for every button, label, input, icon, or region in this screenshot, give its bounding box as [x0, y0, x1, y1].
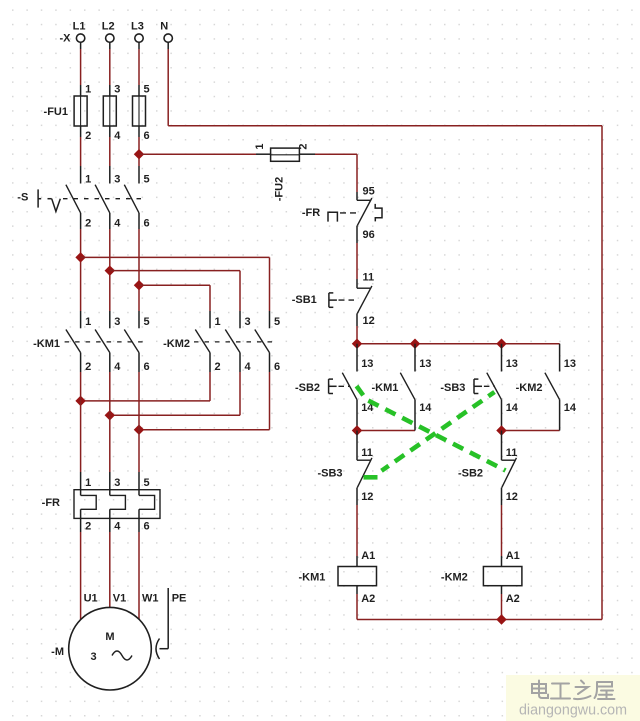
svg-text:1: 1 — [85, 84, 91, 96]
svg-text:A1: A1 — [506, 550, 520, 562]
svg-text:95: 95 — [363, 185, 375, 197]
svg-text:1: 1 — [85, 316, 91, 328]
svg-text:-SB1: -SB1 — [292, 294, 317, 306]
svg-text:11: 11 — [506, 447, 518, 459]
svg-text:V1: V1 — [113, 593, 126, 605]
svg-text:-X: -X — [60, 33, 72, 45]
svg-text:-SB3: -SB3 — [440, 382, 465, 394]
svg-text:-FU1: -FU1 — [44, 106, 68, 118]
svg-text:5: 5 — [144, 477, 150, 489]
svg-text:11: 11 — [363, 272, 375, 284]
svg-text:14: 14 — [506, 402, 519, 414]
svg-text:2: 2 — [85, 217, 91, 229]
svg-text:4: 4 — [114, 361, 121, 373]
svg-text:5: 5 — [144, 174, 150, 186]
svg-text:3: 3 — [114, 316, 120, 328]
svg-text:-KM2: -KM2 — [163, 338, 190, 350]
svg-text:14: 14 — [419, 402, 432, 414]
svg-text:W1: W1 — [142, 593, 159, 605]
svg-text:6: 6 — [274, 361, 280, 373]
svg-text:-KM2: -KM2 — [441, 571, 468, 583]
svg-text:12: 12 — [363, 315, 375, 327]
svg-text:2: 2 — [298, 143, 310, 149]
svg-text:A2: A2 — [361, 593, 375, 605]
svg-text:-KM1: -KM1 — [372, 382, 399, 394]
svg-text:1: 1 — [215, 316, 221, 328]
svg-text:1: 1 — [85, 174, 91, 186]
svg-text:-SB3: -SB3 — [317, 468, 342, 480]
svg-text:1: 1 — [85, 477, 91, 489]
svg-text:96: 96 — [363, 229, 375, 241]
svg-text:-KM1: -KM1 — [33, 338, 60, 350]
svg-text:-FR: -FR — [302, 207, 320, 219]
svg-text:2: 2 — [85, 361, 91, 373]
svg-text:5: 5 — [274, 316, 280, 328]
svg-text:6: 6 — [144, 217, 150, 229]
svg-text:5: 5 — [144, 316, 150, 328]
svg-text:PE: PE — [172, 593, 187, 605]
svg-text:-SB2: -SB2 — [295, 382, 320, 394]
svg-text:L2: L2 — [102, 21, 115, 33]
svg-text:5: 5 — [144, 84, 150, 96]
svg-text:3: 3 — [90, 651, 96, 663]
svg-text:U1: U1 — [84, 593, 98, 605]
svg-text:-S: -S — [17, 192, 28, 204]
svg-text:6: 6 — [144, 521, 150, 533]
svg-text:-KM2: -KM2 — [516, 382, 543, 394]
svg-text:-FU2: -FU2 — [274, 177, 286, 201]
svg-text:4: 4 — [245, 361, 252, 373]
svg-text:4: 4 — [114, 217, 121, 229]
svg-text:3: 3 — [245, 316, 251, 328]
svg-text:-SB2: -SB2 — [458, 468, 483, 480]
svg-text:2: 2 — [85, 521, 91, 533]
svg-text:13: 13 — [361, 358, 373, 370]
svg-text:2: 2 — [85, 130, 91, 142]
svg-text:-FR: -FR — [42, 497, 60, 509]
svg-text:6: 6 — [144, 130, 150, 142]
svg-text:4: 4 — [114, 130, 121, 142]
svg-text:3: 3 — [114, 477, 120, 489]
svg-text:diangongwu.com: diangongwu.com — [519, 703, 627, 719]
svg-text:-M: -M — [51, 646, 64, 658]
svg-text:3: 3 — [114, 84, 120, 96]
svg-text:12: 12 — [506, 491, 518, 503]
svg-text:6: 6 — [144, 361, 150, 373]
svg-text:2: 2 — [215, 361, 221, 373]
svg-text:-KM1: -KM1 — [299, 571, 326, 583]
svg-text:13: 13 — [564, 358, 576, 370]
svg-text:A2: A2 — [506, 593, 520, 605]
svg-text:13: 13 — [419, 358, 431, 370]
svg-text:A1: A1 — [361, 550, 375, 562]
svg-text:3: 3 — [114, 174, 120, 186]
svg-text:12: 12 — [361, 491, 373, 503]
svg-text:14: 14 — [564, 402, 577, 414]
svg-text:L1: L1 — [73, 21, 86, 33]
svg-text:L3: L3 — [131, 21, 144, 33]
svg-text:11: 11 — [361, 447, 373, 459]
svg-text:N: N — [160, 21, 168, 33]
svg-text:1: 1 — [254, 143, 266, 149]
svg-text:M: M — [105, 631, 114, 643]
svg-text:13: 13 — [506, 358, 518, 370]
svg-text:4: 4 — [114, 521, 121, 533]
